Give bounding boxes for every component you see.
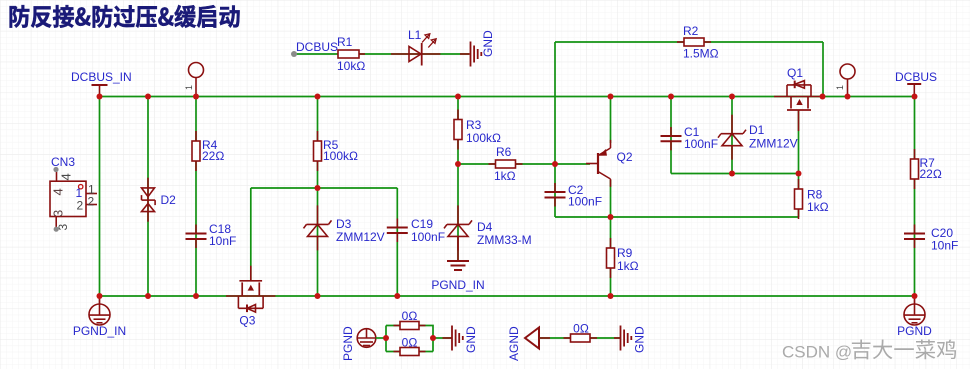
svg-text:R2: R2 (683, 24, 699, 38)
svg-text:4: 4 (59, 173, 74, 180)
svg-text:GND: GND (481, 30, 495, 57)
svg-text:1: 1 (835, 85, 845, 90)
svg-text:2: 2 (88, 195, 95, 209)
svg-text:PGND_IN: PGND_IN (73, 324, 126, 338)
svg-text:1kΩ: 1kΩ (807, 200, 829, 214)
svg-text:0Ω: 0Ω (573, 322, 589, 336)
svg-text:Q2: Q2 (617, 150, 633, 164)
svg-text:R9: R9 (617, 246, 633, 260)
svg-text:DCBUS_IN: DCBUS_IN (71, 70, 132, 84)
svg-text:L1: L1 (408, 28, 422, 42)
svg-text:R1: R1 (337, 35, 353, 49)
svg-text:AGND: AGND (507, 326, 521, 361)
svg-text:Q1: Q1 (787, 66, 803, 80)
svg-text:3: 3 (56, 224, 70, 231)
svg-text:100nF: 100nF (684, 137, 718, 151)
svg-text:GND: GND (633, 326, 647, 353)
svg-text:0Ω: 0Ω (402, 336, 418, 350)
svg-text:R3: R3 (466, 118, 482, 132)
svg-text:100kΩ: 100kΩ (323, 149, 358, 163)
svg-text:0Ω: 0Ω (402, 309, 418, 323)
svg-text:PGND: PGND (897, 324, 932, 338)
svg-text:10nF: 10nF (209, 234, 236, 248)
svg-text:22Ω: 22Ω (920, 167, 942, 181)
svg-text:1kΩ: 1kΩ (617, 259, 639, 273)
svg-text:PGND: PGND (341, 326, 355, 361)
svg-text:C19: C19 (411, 217, 433, 231)
svg-text:CN3: CN3 (51, 155, 75, 169)
svg-text:ZMM12V: ZMM12V (336, 230, 385, 244)
svg-text:DCBUS: DCBUS (895, 70, 937, 84)
svg-text:DCBUS: DCBUS (296, 40, 338, 54)
svg-text:100nF: 100nF (411, 230, 445, 244)
svg-text:ZMM33-M: ZMM33-M (477, 233, 532, 247)
svg-text:3: 3 (51, 210, 66, 217)
svg-text:ZMM12V: ZMM12V (749, 137, 798, 151)
svg-text:22Ω: 22Ω (202, 149, 224, 163)
svg-text:D2: D2 (161, 193, 177, 207)
svg-text:1.5MΩ: 1.5MΩ (683, 47, 719, 61)
svg-text:2: 2 (77, 199, 84, 213)
svg-text:100kΩ: 100kΩ (466, 131, 501, 145)
svg-text:D4: D4 (477, 220, 493, 234)
svg-text:1kΩ: 1kΩ (494, 169, 516, 183)
svg-text:Q3: Q3 (239, 314, 255, 328)
svg-text:D1: D1 (749, 123, 765, 137)
svg-text:100nF: 100nF (568, 195, 602, 209)
svg-text:10kΩ: 10kΩ (337, 59, 365, 73)
svg-text:1: 1 (184, 85, 194, 90)
svg-text:10nF: 10nF (931, 239, 958, 253)
svg-text:D3: D3 (336, 217, 352, 231)
svg-text:R6: R6 (496, 145, 512, 159)
svg-text:GND: GND (464, 326, 478, 353)
svg-text:CSDN @: CSDN @ (782, 343, 852, 362)
svg-text:4: 4 (51, 188, 66, 195)
svg-text:PGND_IN: PGND_IN (431, 278, 484, 292)
